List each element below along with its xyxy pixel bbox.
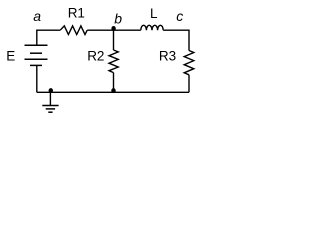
- svg-text:c: c: [176, 8, 183, 24]
- svg-text:b: b: [114, 10, 122, 26]
- resistor R3: [184, 51, 194, 75]
- svg-text:a: a: [33, 8, 41, 24]
- inductor L: [141, 25, 163, 30]
- wire: bottom rail: [37, 91, 189, 93]
- wire: R1 to node b: [87, 29, 113, 31]
- junction dot ground: [49, 88, 53, 93]
- wire: battery bottom stem: [36, 65, 38, 92]
- ground stem: [49, 92, 51, 105]
- wire: R3 bottom to bottom rail: [188, 75, 190, 93]
- resistor R1: [60, 26, 87, 35]
- svg-text:R3: R3: [159, 49, 176, 64]
- ground bar 3: [48, 111, 52, 113]
- svg-text:L: L: [150, 6, 158, 21]
- ground bar 2: [46, 108, 55, 110]
- battery E plate short bottom: [30, 64, 42, 66]
- wire: node b to inductor: [113, 29, 141, 31]
- battery E plate short: [30, 52, 42, 54]
- svg-text:R2: R2: [87, 49, 104, 64]
- wire: inductor to node c corner down to R3: [163, 30, 189, 50]
- junction dot R2 bottom: [111, 88, 115, 93]
- resistor R2: [109, 50, 118, 73]
- battery E plate long top: [25, 44, 48, 46]
- battery E plate long: [25, 58, 48, 60]
- wire: node b down to R2: [113, 30, 115, 50]
- wire: R2 bottom to bottom rail: [113, 73, 115, 93]
- wire: node a left vertical and top rail to R1: [37, 30, 60, 45]
- svg-text:R1: R1: [68, 5, 85, 20]
- svg-text:E: E: [6, 49, 15, 64]
- ground bar 1: [42, 105, 58, 107]
- junction dot node b: [111, 26, 115, 31]
